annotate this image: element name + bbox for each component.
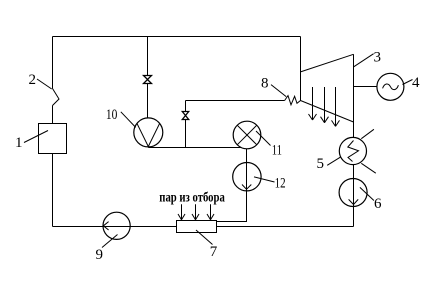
cooling water outlet diagonal of condenser 5 [361,129,374,138]
svg-text:9: 9 [96,247,104,263]
svg-text:1: 1 [15,135,23,151]
pump 6 (circle with down arrow) [339,179,367,227]
svg-text:пар из отбора: пар из отбора [159,190,225,205]
leader line to label 8 [271,85,286,97]
svg-text:7: 7 [210,244,218,260]
pump 10 (circle with V) [134,118,163,147]
turbine extraction arrow 2 [321,87,329,123]
break symbol 2 (line kink) [53,89,60,106]
wire from throttle 11 down to device 12 [246,149,248,163]
leader line to label 11 [256,131,271,146]
valve B (hourglass above line to throttle) [182,112,188,120]
leader line to label 7 [196,230,213,245]
svg-text:5: 5 [317,156,325,172]
svg-text:3: 3 [374,50,382,66]
leader line to label 9 [102,235,118,248]
wire turbine exhaust down to condenser 5 [353,122,355,137]
wire from break 2 to boiler 1 [52,106,54,124]
svg-text:8: 8 [261,76,269,92]
svg-text:6: 6 [374,196,382,212]
generator 4 (circle with sine) [377,73,404,100]
wire condenser 5 to pump 6 [353,165,355,179]
wire left vertical from top wire to break 2 [52,37,54,89]
valve A (hourglass above pump 10) [144,76,152,84]
turbine 3 (trapezoid) [301,54,354,122]
wire from valve B down to horizontal line [185,120,187,148]
cooling water inlet diagonal of condenser 5 [361,163,376,173]
condenser 5 (circle with zigzag) [339,137,366,164]
svg-text:2: 2 [29,72,37,88]
wire horizontal from pump 10 to throttle 11 [148,147,241,149]
throttle 11 (circle with X) [233,121,261,149]
leader line to label 6 [360,187,374,200]
wire bottom condensate line right segment [217,226,354,228]
svg-text:12: 12 [275,175,286,191]
wire from valve A down to pump 10 [147,84,149,119]
wire from boiler 1 down to bottom line [52,154,54,227]
wire extraction steam horizontal line to zigzag 8 [186,100,285,102]
flow indicator 9 (circle with left arrow) [103,212,130,239]
throttling device 8 (zigzag) [285,96,301,105]
svg-text:4: 4 [412,75,420,91]
wire drain from heater 7 up to device 12 [217,191,247,222]
leader line to label 12 [254,177,275,182]
leader line to label 5 [327,157,341,165]
leader line to label 4 [403,80,413,85]
steam inlet arrow 2 into heater 7 [192,204,199,220]
wire bottom condensate line left segment [53,226,177,228]
steam inlet arrow 3 into heater 7 [207,204,214,220]
wire from top line down to valve A [147,37,149,76]
turbine extraction arrow 1 [309,87,317,120]
heater 7 (rectangle) [177,221,217,233]
boiler 1 (rectangle) [39,124,67,154]
svg-text:10: 10 [106,107,118,123]
steam inlet arrow 1 into heater 7 [178,204,185,220]
leader line to label 10 [121,112,136,128]
flow device 12 (circle with down arrow) [233,163,261,192]
svg-text:11: 11 [272,143,282,159]
wire from top line down into turbine 3 [300,37,302,101]
leader line to label 2 [37,79,52,89]
wire from extraction line down to valve B [185,101,187,112]
wire top main steam line [53,36,301,38]
leader line to label 3 [354,54,374,67]
turbine extraction arrow 3 [332,87,340,126]
leader line to label 1 [24,131,48,143]
wire turbine shaft to generator 4 [354,86,377,88]
